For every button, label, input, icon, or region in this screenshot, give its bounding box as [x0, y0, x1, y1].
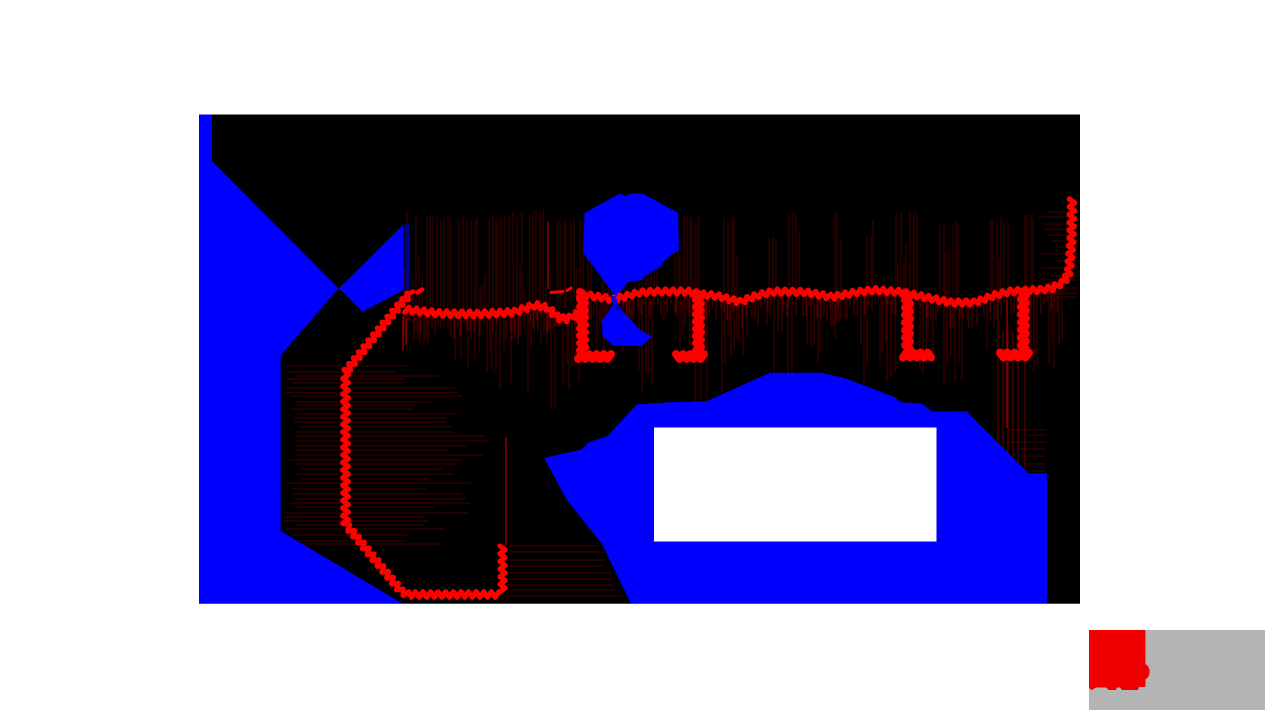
blue region: upper centre blob — [583, 194, 679, 297]
hatch texture: faint horizontal lines, right region — [1005, 212, 1078, 478]
blue region: left bowtie + left margin strip — [199, 115, 402, 604]
red bracket bar 4 — [1021, 292, 1026, 350]
red profile: right end curving up — [1053, 199, 1074, 290]
blue region: large bottom blob — [544, 373, 1047, 604]
hatch texture: faint vertical lines above main profile line — [404, 210, 1033, 311]
hatch verticals near right diagonal edge — [998, 310, 1025, 472]
red bracket foot 2 — [676, 354, 704, 359]
red bracket foot 1 — [578, 354, 611, 359]
red bracket bar 1 (left pair) — [580, 292, 585, 351]
red bracket bar 3 — [905, 293, 910, 350]
blue pinch patch over red line — [611, 296, 619, 306]
hatch texture: faint horizontal lines, lower-left region — [283, 366, 623, 596]
red bracket bar 2 — [696, 293, 701, 351]
red bracket foot 3 — [903, 353, 931, 358]
hatch accents: brighter thin red lines — [403, 222, 1007, 545]
red profile: left horizontal arm — [405, 303, 576, 322]
blue region: lower lobe below pinch — [602, 299, 652, 346]
drawing canvas (black model space) — [199, 115, 1080, 604]
navy pinch patch below — [616, 304, 622, 311]
hatch texture: dense short fringe under the line — [404, 291, 1057, 340]
red profile: hook curl at top of left diagonal — [400, 290, 422, 304]
red dash marks above left arm — [551, 288, 571, 293]
watermark: red logo square with bump — [1089, 630, 1150, 690]
red profile: bottom edge + left riser + diagonal to hook — [343, 293, 499, 597]
watermark: grey box — [1089, 630, 1265, 710]
hatch texture: faint vertical lines below main profile line — [404, 291, 1062, 421]
blue region: small triangle right of bowtie pinch — [339, 224, 404, 312]
white rectangle (label area) inside bottom blob — [654, 428, 937, 542]
red profile: main horizontal line — [579, 286, 1053, 305]
dark navy strip right of triangle — [405, 224, 409, 289]
red bracket foot 4 — [1000, 353, 1029, 358]
red profile: short vertical stub near (502,546-594) — [500, 546, 505, 592]
